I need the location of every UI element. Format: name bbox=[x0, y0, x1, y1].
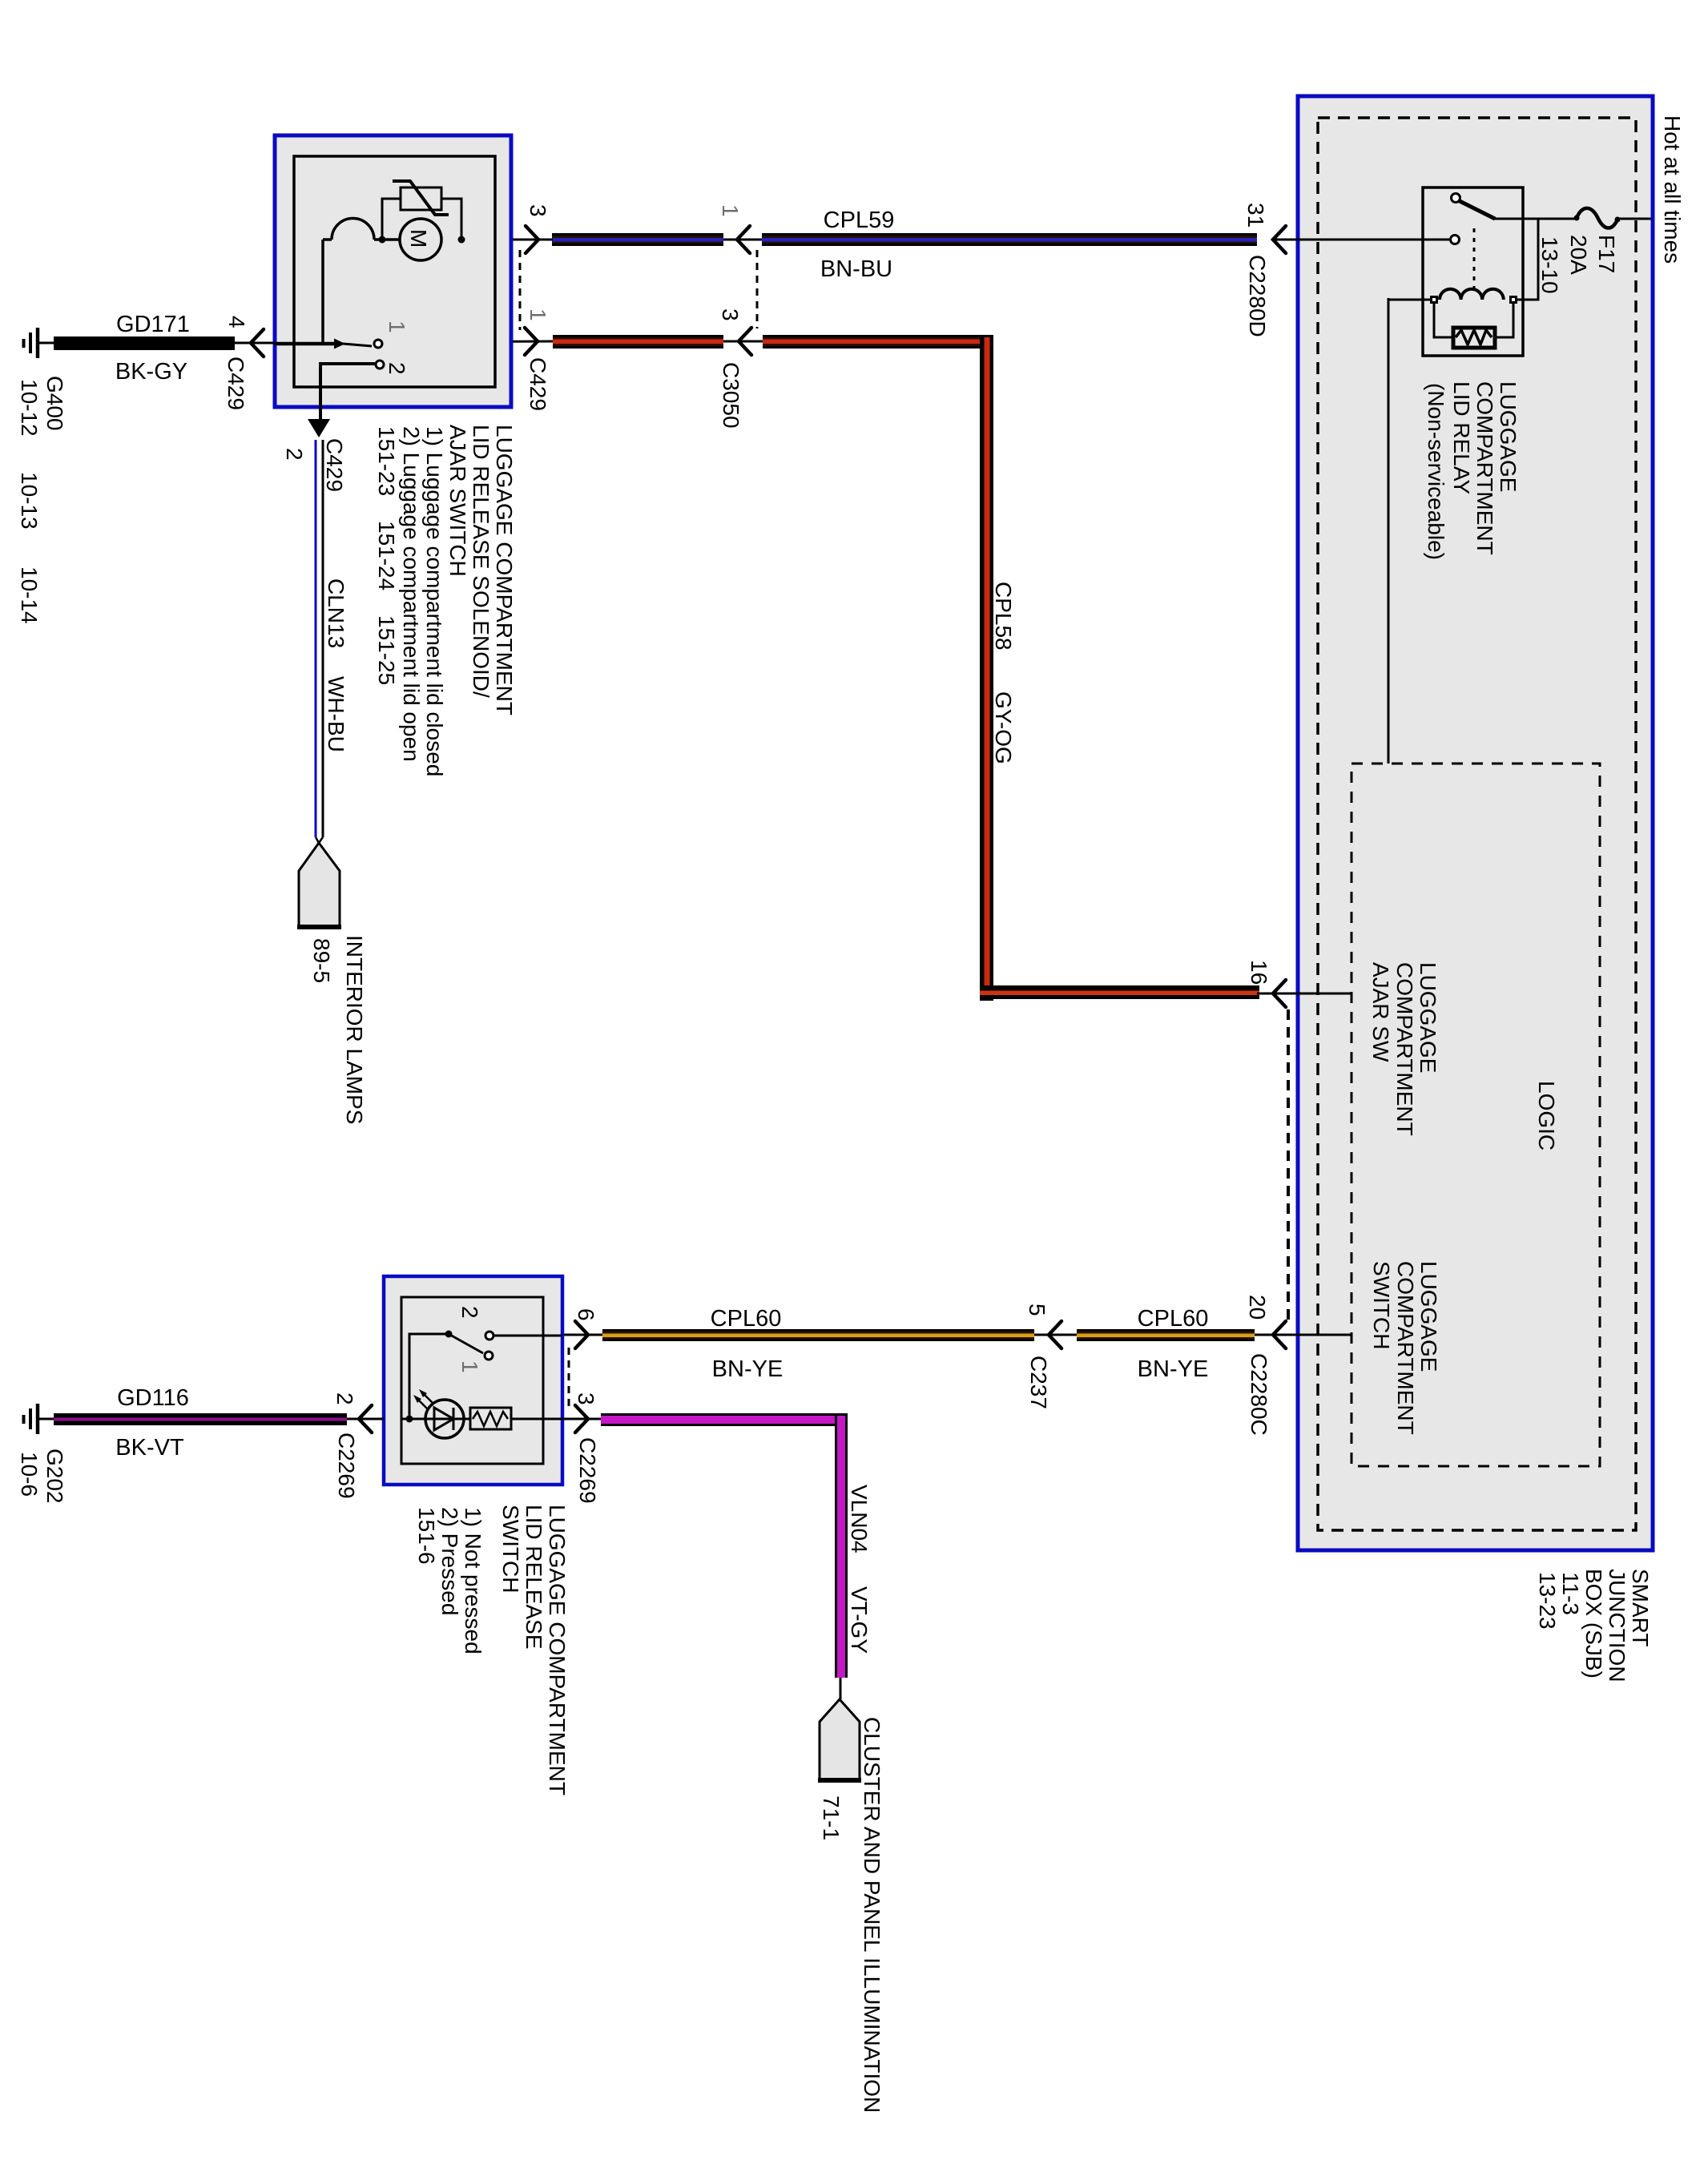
svg-text:G202: G202 bbox=[42, 1449, 67, 1504]
svg-text:LUGGAGE COMPARTMENT: LUGGAGE COMPARTMENT bbox=[492, 425, 517, 715]
svg-text:CLUSTER AND PANEL ILLUMINATION: CLUSTER AND PANEL ILLUMINATION bbox=[860, 1717, 884, 2113]
svg-text:C429: C429 bbox=[224, 357, 248, 410]
svg-text:20A: 20A bbox=[1566, 235, 1591, 275]
svg-text:C2280D: C2280D bbox=[1245, 255, 1270, 337]
ajar switch blade bbox=[343, 344, 372, 346]
svg-text:GD116: GD116 bbox=[117, 1385, 189, 1411]
ajar switch contact 1 bbox=[374, 340, 382, 348]
LED bbox=[413, 1389, 464, 1438]
wire contact 2 to pin 2 drop bbox=[320, 364, 375, 419]
wire CPL58 GY-OG middle segment to corner bbox=[763, 335, 993, 349]
svg-text:BN-YE: BN-YE bbox=[712, 1356, 784, 1382]
svg-text:INTERIOR LAMPS: INTERIOR LAMPS bbox=[342, 935, 367, 1124]
svg-text:C2280C: C2280C bbox=[1247, 1353, 1271, 1436]
connector C2269 pin 2 arrow bbox=[359, 1405, 372, 1433]
wire LED row bbox=[401, 1418, 470, 1421]
svg-text:10-13: 10-13 bbox=[17, 472, 42, 530]
svg-text:LID RELEASE SOLENOID/: LID RELEASE SOLENOID/ bbox=[469, 425, 493, 698]
svg-text:COMPARTMENT: COMPARTMENT bbox=[1393, 1261, 1418, 1435]
wire fuse to box edge bbox=[1617, 218, 1651, 220]
off-page connector CLUSTER AND PANEL ILLUMINATION bbox=[818, 1699, 861, 1780]
svg-text:2: 2 bbox=[457, 1306, 482, 1319]
dashed connector link C2280 bbox=[1287, 1009, 1290, 1320]
connector C2269 pin 6 arrow bbox=[575, 1321, 588, 1348]
svg-text:5: 5 bbox=[1025, 1304, 1049, 1316]
wire CPL58 vertical segment bbox=[980, 335, 993, 1001]
dashed connector link C3050 bbox=[756, 250, 759, 328]
ground G400 bbox=[24, 328, 54, 358]
wire thin CPL60 at switch pin 6 bbox=[562, 1334, 602, 1336]
connector C3050 pin 1 arrow bbox=[737, 226, 750, 253]
wire coil left drop to LOGIC bbox=[1388, 298, 1390, 764]
connector C429 pin 1 arrow bbox=[525, 328, 538, 355]
svg-text:LUGGAGE: LUGGAGE bbox=[1496, 381, 1521, 492]
svg-text:BN-BU: BN-BU bbox=[820, 256, 892, 282]
release switch contact 2 bbox=[485, 1332, 493, 1340]
svg-text:SWITCH: SWITCH bbox=[1369, 1261, 1394, 1349]
svg-text:10-12: 10-12 bbox=[17, 379, 42, 437]
label: F17 20A 13-10 bbox=[1537, 235, 1619, 294]
svg-text:3: 3 bbox=[574, 1392, 598, 1405]
svg-text:20: 20 bbox=[1245, 1295, 1270, 1320]
svg-text:BK-GY: BK-GY bbox=[115, 359, 187, 385]
relay actuator dashed link bbox=[1473, 228, 1476, 292]
wire GD171 BK-GY bbox=[54, 336, 235, 350]
svg-text:C3050: C3050 bbox=[719, 362, 743, 429]
release switch pivot and blade bbox=[445, 1331, 453, 1338]
wire motor left with solenoid hump bbox=[323, 219, 400, 345]
svg-text:1: 1 bbox=[718, 204, 743, 217]
svg-text:3: 3 bbox=[718, 308, 743, 321]
svg-text:2: 2 bbox=[332, 1392, 357, 1405]
svg-text:VT-GY: VT-GY bbox=[847, 1586, 872, 1654]
wire thin CPL58 at solenoid pin 1 bbox=[382, 341, 553, 342]
svg-text:C237: C237 bbox=[1026, 1356, 1051, 1409]
wire pin20 stub into LOGIC bbox=[1274, 1334, 1351, 1336]
LOGIC block dashed box bbox=[1351, 764, 1600, 1466]
svg-text:F17: F17 bbox=[1594, 235, 1619, 273]
wire pivot to left leg bbox=[409, 1334, 445, 1419]
wire VLN04 VT-GY horizontal bbox=[601, 1413, 848, 1426]
wire GD116 BK-VT bbox=[54, 1413, 347, 1425]
connector C237 pin 5 arrow bbox=[1049, 1321, 1061, 1348]
connector C429 pin 3 arrow bbox=[526, 226, 538, 253]
svg-text:JUNCTION: JUNCTION bbox=[1605, 1569, 1629, 1682]
resistor in release switch bbox=[470, 1408, 511, 1429]
wire VLN04 VT-GY vertical bbox=[835, 1413, 848, 1678]
svg-text:1: 1 bbox=[457, 1360, 482, 1373]
svg-text:LID RELAY: LID RELAY bbox=[1449, 381, 1474, 494]
wire thin VLN04 to off-page bbox=[840, 1678, 842, 1699]
svg-text:VLN04: VLN04 bbox=[847, 1485, 872, 1553]
svg-text:AJAR SW: AJAR SW bbox=[1368, 962, 1393, 1062]
relay blade bbox=[1458, 200, 1495, 219]
svg-text:G400: G400 bbox=[42, 376, 67, 431]
wire thin CPL58 lower at pin 16 bbox=[1257, 993, 1274, 995]
label: LUGGAGE COMPARTMENT SWITCH bbox=[1369, 1261, 1441, 1435]
svg-text:LID RELEASE: LID RELEASE bbox=[522, 1505, 546, 1650]
smart junction box SJB outline bbox=[1298, 96, 1653, 1550]
wire pin 2 exit arrowhead bbox=[308, 419, 330, 437]
relay coil terminal squares bbox=[1430, 296, 1438, 304]
wire relay blade to fuse bbox=[1493, 218, 1577, 220]
svg-text:BOX (SJB): BOX (SJB) bbox=[1581, 1569, 1606, 1678]
svg-text:GY-OG: GY-OG bbox=[991, 691, 1016, 764]
wire thin CPL59 at C3050 bbox=[723, 239, 762, 241]
wire thin VLN04 at switch pin 3 bbox=[562, 1418, 602, 1421]
thermistor bbox=[379, 181, 465, 244]
relay K: luggage compartment lid relay bbox=[1388, 187, 1577, 764]
wire thin CPL58 at C3050 bbox=[723, 341, 763, 343]
svg-text:(Non-serviceable): (Non-serviceable) bbox=[1424, 383, 1448, 560]
connector C429 pin 4 arrow bbox=[251, 329, 264, 357]
svg-text:6: 6 bbox=[574, 1308, 598, 1321]
svg-text:BN-YE: BN-YE bbox=[1138, 1356, 1209, 1382]
svg-text:151-24: 151-24 bbox=[374, 521, 399, 590]
svg-text:LUGGAGE: LUGGAGE bbox=[1416, 962, 1440, 1073]
svg-text:151-23: 151-23 bbox=[374, 426, 399, 496]
svg-text:CPL58: CPL58 bbox=[991, 582, 1016, 651]
connector C2280D pin 16 arrow bbox=[1273, 980, 1286, 1007]
connector C2269 pin 3 arrow bbox=[575, 1405, 588, 1433]
svg-text:31: 31 bbox=[1243, 203, 1268, 228]
label: LUGGAGE COMPARTMENT LID RELAY (Non-serviceable) bbox=[1424, 381, 1521, 560]
wire CPL60 BN-YE right segment bbox=[1077, 1329, 1255, 1341]
wire pin31 stub into relay bbox=[1274, 239, 1451, 241]
relay contact 87 circle bbox=[1452, 194, 1460, 203]
label G400 10-12 10-13 10-14 bbox=[17, 376, 67, 624]
svg-text:16: 16 bbox=[1247, 960, 1271, 985]
wire coil left stub bbox=[1388, 299, 1430, 301]
relay coil bbox=[1440, 289, 1504, 300]
svg-text:BK-VT: BK-VT bbox=[115, 1435, 184, 1461]
label: SMART JUNCTION BOX (SJB) 11-3 13-23 bbox=[1535, 1569, 1653, 1682]
wire CPL60 BN-YE left segment bbox=[602, 1329, 1034, 1341]
svg-text:C429: C429 bbox=[322, 438, 347, 492]
svg-text:3: 3 bbox=[526, 204, 550, 217]
svg-text:COMPARTMENT: COMPARTMENT bbox=[1392, 962, 1417, 1136]
luggage compartment lid release solenoid / ajar switch box bbox=[275, 135, 511, 407]
connector C3050 pin 3 arrow bbox=[739, 328, 751, 355]
svg-text:CPL59: CPL59 bbox=[824, 208, 895, 233]
off-page connector INTERIOR LAMPS bbox=[297, 843, 341, 927]
resistor in relay bbox=[1453, 328, 1495, 348]
svg-text:1: 1 bbox=[385, 320, 409, 333]
label: LUGGAGE COMPARTMENT AJAR SW bbox=[1368, 962, 1440, 1136]
svg-text:GD171: GD171 bbox=[116, 312, 190, 337]
wire thin CPL60 at pin 20 bbox=[1255, 1334, 1274, 1336]
svg-text:13-23: 13-23 bbox=[1535, 1572, 1560, 1630]
wire contact 2 to pin 6 bbox=[493, 1335, 562, 1337]
wire thin CPL60 at C237 bbox=[1034, 1334, 1077, 1336]
ajar switch pin4 feed line bbox=[275, 342, 336, 346]
svg-text:1) Luggage compartment lid clo: 1) Luggage compartment lid closed bbox=[422, 426, 447, 776]
svg-text:CLN13: CLN13 bbox=[324, 578, 348, 648]
release switch contact 1 bbox=[485, 1352, 493, 1360]
svg-text:2: 2 bbox=[282, 448, 307, 461]
wire CPL59 BN-BU left segment bbox=[552, 233, 723, 246]
svg-text:2) Pressed: 2) Pressed bbox=[437, 1507, 462, 1615]
svg-text:SWITCH: SWITCH bbox=[498, 1505, 523, 1593]
svg-text:WH-BU: WH-BU bbox=[324, 676, 348, 752]
svg-text:C429: C429 bbox=[526, 357, 550, 411]
wire coil right to fuse riser bbox=[1517, 299, 1538, 301]
dashed connector link C429 bbox=[519, 250, 522, 330]
svg-text:1: 1 bbox=[526, 308, 550, 321]
label: LUGGAGE COMPARTMENT LID RELEASE SWITCH bbox=[414, 1505, 570, 1795]
wire CPL58 GY-OG left segment bbox=[553, 335, 723, 349]
wire CPL58 lower segment to pin 16 bbox=[980, 985, 1259, 999]
thermistor legs bbox=[382, 199, 401, 240]
luggage compartment lid release switch box bbox=[384, 1276, 562, 1485]
svg-text:151-6: 151-6 bbox=[414, 1507, 439, 1565]
svg-text:CPL60: CPL60 bbox=[711, 1306, 782, 1332]
svg-text:LUGGAGE: LUGGAGE bbox=[1416, 1261, 1441, 1372]
wire pin16 stub into LOGIC bbox=[1274, 993, 1351, 995]
svg-text:1) Not pressed: 1) Not pressed bbox=[461, 1507, 485, 1654]
svg-text:COMPARTMENT: COMPARTMENT bbox=[1472, 381, 1497, 555]
svg-text:C2269: C2269 bbox=[334, 1433, 359, 1499]
svg-text:11-3: 11-3 bbox=[1558, 1572, 1583, 1615]
wire thin CPL59 at solenoid pin 3 bbox=[461, 239, 553, 241]
svg-text:LOGIC: LOGIC bbox=[1534, 1081, 1559, 1151]
wire thin GD116 to switch pin 2 bbox=[347, 1418, 384, 1421]
svg-text:Hot at all times: Hot at all times bbox=[1660, 115, 1685, 264]
fuse F17 20A bbox=[1574, 208, 1652, 228]
svg-text:M: M bbox=[406, 229, 431, 248]
dashed connector link C2269 bbox=[568, 1348, 570, 1407]
svg-text:AJAR SWITCH: AJAR SWITCH bbox=[445, 425, 470, 577]
ground G202 bbox=[24, 1404, 54, 1434]
wire thin GD171 to box bbox=[233, 342, 275, 345]
wire CPL59 BN-BU right segment bbox=[762, 233, 1257, 246]
connector C2280D pin 31 arrow bbox=[1273, 226, 1286, 253]
svg-text:4: 4 bbox=[224, 316, 249, 328]
motor M bbox=[400, 219, 441, 260]
wire CLN13 WH-BU double line bbox=[316, 440, 323, 843]
svg-text:71-1: 71-1 bbox=[819, 1795, 844, 1840]
resistor legs bbox=[1434, 304, 1453, 337]
svg-text:13-10: 13-10 bbox=[1537, 236, 1562, 294]
svg-text:2) Luggage compartment lid ope: 2) Luggage compartment lid open bbox=[399, 426, 424, 762]
svg-text:C2269: C2269 bbox=[575, 1437, 600, 1504]
svg-text:2: 2 bbox=[385, 362, 409, 375]
relay contact 30 circle bbox=[1451, 236, 1460, 244]
svg-text:10-14: 10-14 bbox=[17, 566, 42, 624]
svg-text:151-25: 151-25 bbox=[374, 615, 399, 685]
svg-text:LUGGAGE COMPARTMENT: LUGGAGE COMPARTMENT bbox=[545, 1505, 570, 1795]
svg-text:SMART: SMART bbox=[1628, 1569, 1653, 1647]
svg-text:CPL60: CPL60 bbox=[1138, 1306, 1209, 1332]
wire resistor to pin 3 bbox=[511, 1418, 562, 1421]
label: LUGGAGE COMPARTMENT LID RELEASE SOLENOID/ AJAR SWITCH bbox=[374, 425, 517, 776]
connector C2280C pin 20 arrow bbox=[1273, 1321, 1286, 1348]
ajar switch pivot arrow bbox=[334, 339, 345, 349]
svg-text:10-6: 10-6 bbox=[17, 1452, 42, 1497]
svg-text:89-5: 89-5 bbox=[309, 938, 334, 983]
ajar switch contact 2 bbox=[376, 361, 384, 369]
